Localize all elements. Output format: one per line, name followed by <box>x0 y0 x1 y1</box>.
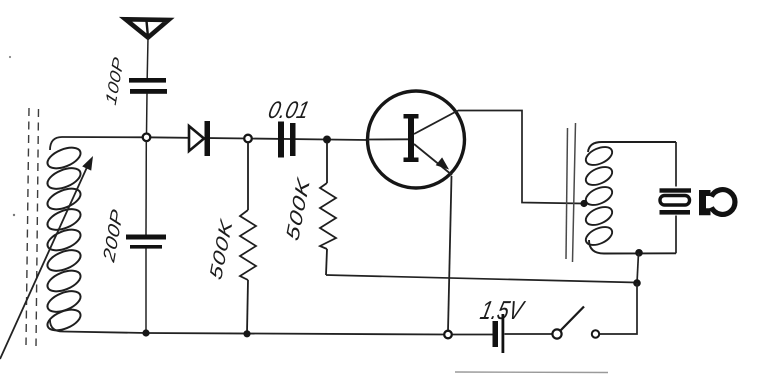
node B junction ring <box>244 135 252 143</box>
capacitor C2 200P <box>126 235 166 249</box>
scan speck <box>13 214 15 216</box>
wire collector to transformer tap <box>458 111 583 204</box>
capacitor C1 100P <box>129 78 167 94</box>
ferrite core dashed lines <box>26 108 39 346</box>
scan artifact line bottom <box>455 371 608 374</box>
node D junction dot <box>635 249 643 257</box>
node E junction dot <box>633 279 641 287</box>
wire battery to switch <box>505 333 553 335</box>
inductor L1 antenna coil <box>45 143 84 334</box>
transformer core lines <box>566 123 576 262</box>
resistor R2 500K <box>320 142 336 275</box>
transistor Q1 <box>368 91 465 188</box>
wire 100P to node A <box>146 94 149 135</box>
wire emitter down <box>448 176 452 331</box>
wire earphone right side <box>675 142 677 253</box>
earphone <box>660 188 735 215</box>
wire antenna lead <box>146 38 149 78</box>
wire node D down <box>637 253 639 283</box>
wire 200P down to bottom <box>145 249 147 333</box>
node G junction dot (R1 bottom) <box>243 330 250 337</box>
wire R2 bottom to switch node <box>326 275 637 283</box>
diode D1 <box>189 121 210 156</box>
svg-text:0.01: 0.01 <box>266 96 312 124</box>
wire bottom main <box>50 320 493 335</box>
switch S1 <box>552 307 599 339</box>
resistor R1 500K <box>240 142 256 333</box>
wire node A down to 200P <box>145 141 147 235</box>
node tap junction dot <box>580 200 587 207</box>
node A junction ring <box>143 134 151 142</box>
wire node E down to switch <box>599 283 637 334</box>
battery B1 1.5V <box>493 314 505 353</box>
capacitor C3 0.01 <box>278 122 296 158</box>
scan speck <box>9 56 11 58</box>
node C junction dot <box>323 136 331 144</box>
node F junction dot (200P bottom) <box>142 329 149 336</box>
tuning arrow <box>0 156 93 359</box>
transformer T1 winding <box>583 142 676 254</box>
antenna <box>126 19 169 37</box>
node H junction ring (emitter bottom) <box>444 331 452 339</box>
wire main top horizontal <box>50 137 368 150</box>
